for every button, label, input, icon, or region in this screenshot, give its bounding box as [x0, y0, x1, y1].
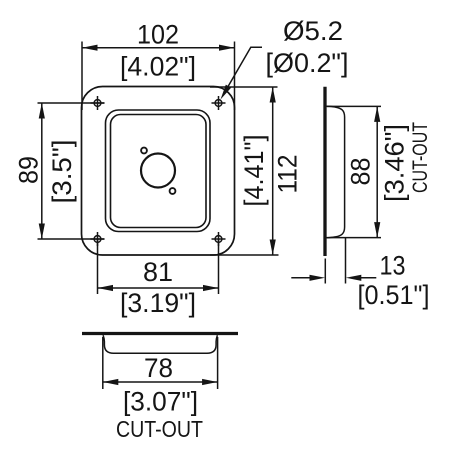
- mounting hole bottom-right: [212, 232, 226, 246]
- svg-text:102: 102: [137, 20, 179, 50]
- svg-text:78: 78: [144, 353, 173, 383]
- front view: connector screw hole top-left: [141, 148, 147, 154]
- dim 112: extension lines: [210, 86, 278, 88]
- front view: connector screw hole bottom-right: [170, 188, 176, 194]
- bottom view: dish profile: [103, 335, 217, 353]
- dim 89: extension lines: [38, 102, 105, 104]
- svg-text:CUT-OUT: CUT-OUT: [408, 122, 432, 193]
- dim 102: dimension line: [82, 47, 235, 49]
- svg-text:Ø5.2: Ø5.2: [283, 16, 343, 46]
- svg-text:[0.51"]: [0.51"]: [358, 280, 430, 310]
- dim 78: extension lines: [102, 337, 104, 389]
- svg-text:[Ø0.2"]: [Ø0.2"]: [266, 48, 349, 78]
- mounting hole bottom-left: [91, 232, 105, 246]
- leader for hole dia 5.2: [224, 47, 262, 93]
- side view: dish profile: [327, 106, 345, 238]
- mounting hole top-left: [91, 96, 105, 110]
- dim 89: dimension line: [41, 103, 43, 239]
- svg-text:13: 13: [380, 251, 406, 281]
- dim 81: extension lines: [97, 239, 99, 294]
- dim 13: dimension line right piece: [357, 277, 377, 279]
- front view: recess inner edge: [111, 115, 207, 228]
- svg-text:[3.19"]: [3.19"]: [120, 288, 196, 318]
- dim 13: extension lines: [324, 259, 326, 284]
- dim 102: extension lines: [81, 42, 83, 111]
- svg-text:CUT-OUT: CUT-OUT: [116, 416, 203, 442]
- mounting hole top-right: [212, 96, 226, 110]
- dim 88: extension lines: [327, 105, 381, 107]
- front view: D-series punch hole: [141, 154, 175, 188]
- dim 81: dimension line: [98, 287, 219, 289]
- svg-text:89: 89: [13, 156, 43, 184]
- svg-text:[3.07"]: [3.07"]: [123, 387, 198, 417]
- front view: recess outer edge: [106, 110, 211, 232]
- svg-text:112: 112: [273, 155, 303, 194]
- svg-text:[4.02"]: [4.02"]: [120, 52, 196, 82]
- svg-text:81: 81: [143, 257, 173, 287]
- svg-text:[4.41"]: [4.41"]: [239, 135, 269, 207]
- svg-text:[3.46"]: [3.46"]: [380, 124, 410, 202]
- front view: plate outline: [82, 87, 235, 256]
- svg-text:88: 88: [346, 158, 376, 186]
- dim 112: dimension line: [272, 87, 274, 255]
- dim 88: dimension line: [376, 106, 378, 237]
- svg-text:[3.5"]: [3.5"]: [47, 140, 77, 204]
- side view: plate edge-on: [323, 87, 326, 256]
- dim 13: dimension line left piece: [291, 277, 314, 279]
- bottom view: plate edge-on: [82, 332, 238, 335]
- dim 78: dimension line: [103, 381, 218, 383]
